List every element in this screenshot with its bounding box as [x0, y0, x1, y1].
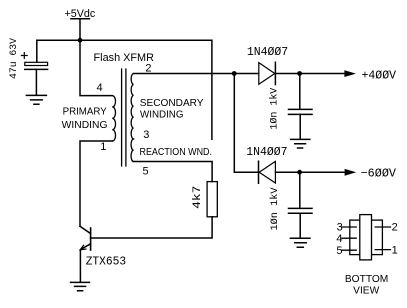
- node junction dot C2 top: [297, 71, 302, 76]
- svg-text:2: 2: [392, 221, 398, 233]
- node +5Vdc label: [65, 8, 96, 20]
- transistor Q1 collector lead: [80, 226, 91, 233]
- wire C2 to ground: [299, 114, 301, 139]
- label package pin 2: [392, 221, 398, 233]
- diode D2 cathode bar: [258, 161, 260, 183]
- arrow -600V output: [345, 169, 357, 176]
- label +400V: [362, 68, 397, 82]
- svg-text:BOTTOM: BOTTOM: [345, 274, 388, 285]
- svg-text:4k7: 4k7: [192, 186, 204, 209]
- ground below Q1 emitter: [71, 282, 90, 290]
- wire C3 from junction: [299, 172, 301, 208]
- label package pin 5: [336, 245, 342, 257]
- resistor R1 body: [207, 182, 217, 217]
- svg-text:+4ØØV: +4ØØV: [362, 68, 397, 82]
- node junction dot +5V: [78, 38, 83, 43]
- svg-text:1: 1: [392, 245, 398, 257]
- wire D2 anode to -600V arrow: [275, 171, 344, 173]
- ground below C3: [290, 238, 310, 247]
- capacitor C1 47u 63V plus sign: [21, 53, 27, 59]
- svg-text:3: 3: [143, 129, 149, 141]
- transistor Q1 emitter arrowhead: [80, 245, 86, 250]
- label REACTION WND.: [140, 147, 213, 158]
- label 1N4007 top: [247, 45, 288, 59]
- svg-text:3: 3: [337, 221, 343, 233]
- wire D1 cathode to +400V arrow: [275, 73, 344, 75]
- svg-text:4: 4: [336, 233, 342, 245]
- svg-text:1Øn 1kV: 1Øn 1kV: [268, 88, 280, 130]
- capacitor C2 10n 1kV plates: [289, 109, 313, 114]
- transformer T1 secondary winding: [131, 74, 133, 140]
- node junction dot C3 top: [297, 170, 302, 175]
- label package pin 4: [336, 233, 342, 245]
- arrow +400V output: [344, 70, 356, 77]
- node junction dot D1 anode branch: [232, 71, 237, 76]
- svg-text:REACTION WND.: REACTION WND.: [140, 147, 213, 158]
- package U1 left pins 3 4 5: [342, 227, 356, 250]
- label PRIMARY WINDING: [62, 107, 108, 131]
- label ZTX653: [86, 255, 127, 269]
- svg-text:SECONDARY: SECONDARY: [140, 98, 204, 109]
- svg-text:1: 1: [100, 141, 106, 153]
- value label 10n 1kV (C3): [269, 188, 281, 231]
- label pin 1: [100, 141, 106, 153]
- svg-text:VIEW: VIEW: [353, 285, 380, 296]
- svg-text:2: 2: [145, 63, 151, 75]
- svg-text:4: 4: [97, 82, 103, 94]
- svg-text:5: 5: [143, 166, 149, 178]
- ground below C2: [291, 139, 310, 148]
- diode D2 1N4007 triangle: [259, 161, 275, 183]
- svg-text:1N4ØØ7: 1N4ØØ7: [246, 145, 287, 159]
- transformer T1 core: [122, 69, 126, 166]
- wire pin2 to diode D1 anode: [134, 73, 259, 75]
- package U1 bottom view body: [350, 220, 383, 255]
- capacitor C3 10n 1kV plates: [289, 208, 313, 213]
- wire pin5 to resistor R1: [134, 162, 213, 182]
- wire C1 to ground: [35, 69, 37, 95]
- transformer T1 reaction winding: [131, 139, 134, 162]
- label package pin 3: [337, 221, 343, 233]
- package U1 right pins 2 1: [375, 227, 390, 250]
- svg-text:ZTX653: ZTX653: [86, 255, 127, 269]
- +5Vdc underline bar: [71, 18, 89, 20]
- label package pin 1: [392, 245, 398, 257]
- capacitor C1 top plate: [25, 62, 48, 65]
- label pin 5: [143, 166, 149, 178]
- transistor Q1 base bar: [90, 228, 92, 250]
- value label 47u 63V: [9, 38, 20, 79]
- label -600V: [361, 167, 397, 181]
- svg-text:−6ØØV: −6ØØV: [361, 167, 397, 181]
- value label 10n 1kV (C2): [268, 88, 280, 130]
- transistor Q1 emitter lead: [80, 244, 90, 282]
- label 1N4007 bottom: [246, 145, 287, 159]
- wire C2 from junction: [299, 74, 301, 110]
- label pin 3: [143, 129, 149, 141]
- svg-text:WINDING: WINDING: [140, 109, 184, 120]
- label pin 2: [145, 63, 151, 75]
- diode D1 cathode bar: [274, 62, 276, 84]
- wire branch to D2: [234, 74, 258, 173]
- wire pin4 from rail to primary: [80, 40, 112, 95]
- label pin 4: [97, 82, 103, 94]
- label Flash XFMR: [94, 52, 155, 64]
- label BOTTOM VIEW: [345, 274, 388, 296]
- svg-text:47u 63V: 47u 63V: [9, 38, 20, 79]
- ground below C1: [26, 95, 46, 104]
- wire R1 to Q1 base: [91, 217, 213, 238]
- svg-text:1N4ØØ7: 1N4ØØ7: [247, 45, 288, 59]
- wire pin1 from primary to Q1 collector: [80, 141, 112, 226]
- label SECONDARY WINDING: [140, 98, 204, 120]
- wire +5V rail to pin3: [37, 40, 212, 139]
- value label 4k7: [192, 186, 204, 209]
- wire +5V stem: [79, 19, 81, 40]
- svg-text:1Øn 1kV: 1Øn 1kV: [269, 188, 281, 231]
- diode D1 1N4007 triangle: [259, 63, 275, 85]
- capacitor C1 bottom plate: [25, 68, 48, 70]
- svg-text:5: 5: [336, 245, 342, 257]
- svg-text:WINDING: WINDING: [62, 120, 108, 131]
- wire C3 to ground: [299, 213, 301, 238]
- svg-text:PRIMARY: PRIMARY: [63, 107, 107, 118]
- package U1 center core: [360, 215, 372, 260]
- transformer T1 primary winding: [112, 96, 115, 141]
